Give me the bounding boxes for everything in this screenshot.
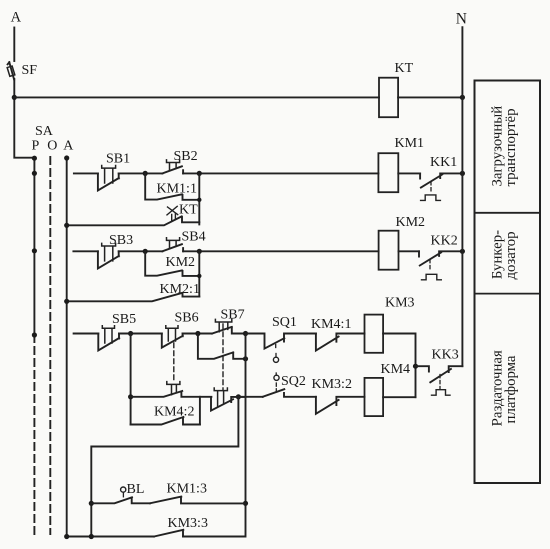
contactor coil KM2 — [379, 231, 399, 270]
wire: row3 rail to SB7 — [183, 333, 213, 335]
svg-text:SA: SA — [35, 124, 54, 139]
svg-text:KM1:3: KM1:3 — [167, 482, 207, 497]
wire: row1 rail mid — [119, 172, 163, 174]
junction: N KK1 — [460, 171, 465, 176]
contactor coil KM3 — [365, 315, 384, 353]
thermal contact KK1 — [420, 173, 462, 187]
contactor coil KM1 — [378, 153, 398, 192]
contact KM4:2 — [131, 417, 200, 425]
svg-text:KK2: KK2 — [431, 234, 458, 249]
wire: row3 rail left — [74, 333, 99, 335]
wire: row1 rail right to coil KM1 — [183, 172, 378, 174]
junction: BL line right — [243, 501, 248, 506]
contact SB6 lower (NO) — [131, 391, 212, 397]
svg-text:A: A — [11, 10, 22, 26]
pushbutton SB5 (NC) — [98, 334, 119, 351]
junction: N KT — [460, 95, 465, 100]
junction: row2 branch left — [143, 249, 148, 254]
svg-text:SB2: SB2 — [174, 149, 198, 164]
svg-text:KT: KT — [395, 61, 414, 76]
thermal contact KK3 — [416, 366, 463, 382]
contact KM4:1 — [316, 334, 365, 351]
wire: top rail to KT coil — [14, 96, 379, 98]
wire: KT out to N — [398, 96, 462, 98]
wire: SB5 node drop — [130, 334, 132, 425]
wire: bottom rail — [67, 536, 154, 538]
svg-text:KM2:1: KM2:1 — [160, 282, 200, 297]
pushbutton SB7 (NC on rail) — [212, 327, 245, 334]
SB7 second contact branch — [198, 334, 246, 359]
wire: phase A drop to SF — [13, 28, 15, 62]
junction: SQ2 row node — [236, 394, 241, 399]
svg-text:KM4:2: KM4:2 — [154, 405, 194, 420]
wire: node drop to loop line — [91, 397, 238, 537]
svg-text:SF: SF — [22, 63, 38, 78]
branch KM1:1 (self hold) — [145, 173, 199, 224]
contact KT (time relay) line from A — [67, 216, 200, 225]
junction: A line KT tap — [64, 223, 69, 228]
limit switch SQ2 — [263, 389, 316, 397]
junction: KM1:1 right — [197, 198, 201, 202]
svg-text:KM4:1: KM4:1 — [311, 317, 351, 332]
contactor coil KM4 — [365, 378, 384, 416]
wire: KM3 out to join vertical — [383, 334, 415, 398]
level sensor BL — [91, 497, 150, 503]
pushbutton SB4 (NO) — [162, 244, 183, 251]
wire: KM4 out to join vertical — [383, 396, 415, 398]
wire: row2 rail mid — [119, 250, 163, 252]
svg-text:N: N — [456, 10, 467, 27]
junction: P row2 — [32, 248, 37, 253]
limit switch SQ1 — [246, 334, 316, 349]
load box frame — [475, 81, 541, 484]
svg-text:SB1: SB1 — [106, 152, 130, 167]
svg-text:SB7: SB7 — [221, 308, 245, 323]
svg-text:BL: BL — [127, 482, 145, 497]
svg-text:KM3:2: KM3:2 — [312, 377, 352, 392]
junction: A bottom — [64, 534, 69, 539]
contact KM1:3 — [150, 497, 246, 504]
svg-text:KM1: KM1 — [395, 136, 425, 151]
dashed link SB6 to lower contact — [173, 343, 175, 383]
svg-text:SB4: SB4 — [182, 230, 206, 245]
divider 2 — [475, 293, 541, 295]
svg-text:P: P — [32, 139, 40, 154]
junction: A top — [64, 155, 69, 160]
svg-text:KM4: KM4 — [381, 362, 411, 377]
wire: SA position P line — [33, 158, 35, 335]
svg-text:KM1:1: KM1:1 — [157, 182, 197, 197]
junction: P top — [32, 156, 37, 161]
junction: KM2 right — [197, 274, 201, 278]
svg-text:платформа: платформа — [503, 355, 519, 423]
junction: A line KM2:1 tap — [64, 299, 69, 304]
contact KM3:2 — [316, 397, 365, 414]
pushbutton SB2 (NO) — [162, 166, 183, 173]
svg-text:KM2: KM2 — [396, 215, 426, 230]
pushbutton SB1 (NC) — [98, 173, 119, 190]
svg-text:O: O — [47, 139, 57, 154]
dashed link SB7 to lower contact — [222, 324, 224, 390]
breaker SF — [8, 62, 15, 79]
junction: rail3 / right vertical — [243, 331, 248, 336]
junction: bottom left loop — [89, 534, 94, 539]
svg-text:SB5: SB5 — [112, 312, 136, 327]
junction: top rail tap — [12, 95, 17, 100]
branch KM2 (self hold) — [145, 251, 199, 296]
wire: SA position A line — [66, 158, 68, 537]
junction: row2 branch right — [197, 249, 202, 254]
wire: KM1 out — [398, 172, 420, 174]
wire: row2 rail right to coil KM2 — [183, 250, 379, 252]
divider 1 — [475, 212, 541, 214]
svg-text:SQ2: SQ2 — [281, 374, 306, 389]
contact KM3:3 — [154, 530, 183, 537]
svg-text:KK3: KK3 — [432, 348, 459, 363]
svg-text:SB3: SB3 — [109, 233, 133, 248]
svg-text:KK1: KK1 — [430, 155, 457, 170]
wire: SF to SA stub — [14, 79, 34, 158]
svg-text:дозатор: дозатор — [503, 231, 519, 279]
relay coil KT — [379, 78, 398, 118]
wire: KM4:2 loop right vertical — [199, 397, 201, 425]
junction: N KK2 — [460, 249, 465, 254]
svg-text:транспортёр: транспортёр — [503, 108, 519, 186]
junction: P row1 — [32, 171, 37, 176]
svg-text:KT: KT — [179, 203, 198, 218]
svg-text:KM3:3: KM3:3 — [168, 516, 208, 531]
x-mark on KT contact — [167, 206, 178, 220]
junction: KM3/KM4 mid tap — [413, 364, 418, 369]
wire: row3 rail to SB6 — [119, 333, 162, 335]
wire: KM2 out — [399, 250, 420, 252]
junction: SB5/SB6 node — [128, 331, 133, 336]
junction: P row3 — [32, 332, 37, 337]
wire: SQ2 row line from node — [238, 396, 262, 398]
svg-text:KM2: KM2 — [166, 255, 196, 270]
junction: row1 branch right — [197, 171, 202, 176]
SQ1 actuator circle — [275, 345, 277, 350]
wire: row1 rail left — [74, 172, 98, 174]
junction: SB7 second right — [243, 356, 248, 361]
svg-text:SB6: SB6 — [175, 311, 199, 326]
svg-text:SQ1: SQ1 — [272, 315, 297, 330]
junction: BL line left — [89, 501, 94, 506]
svg-text:KM3: KM3 — [385, 296, 415, 311]
contact SB7 lower (NC) — [211, 397, 246, 411]
wire: row2 rail left — [73, 250, 98, 252]
wire: SA position O line (dashed) — [49, 157, 51, 534]
wire: N line — [461, 27, 463, 366]
junction: SB6/SB7 node — [195, 331, 200, 336]
junction: row1 branch left — [143, 171, 148, 176]
pushbutton SB6 (NC with step) — [162, 334, 183, 348]
svg-text:A: A — [63, 139, 74, 154]
wire: long right vertical — [183, 334, 246, 537]
pushbutton SB3 (NC) — [98, 251, 119, 268]
thermal contact KK2 — [419, 251, 462, 265]
junction: loop top left — [128, 394, 133, 399]
contact KM2:1 line from A — [67, 293, 200, 301]
